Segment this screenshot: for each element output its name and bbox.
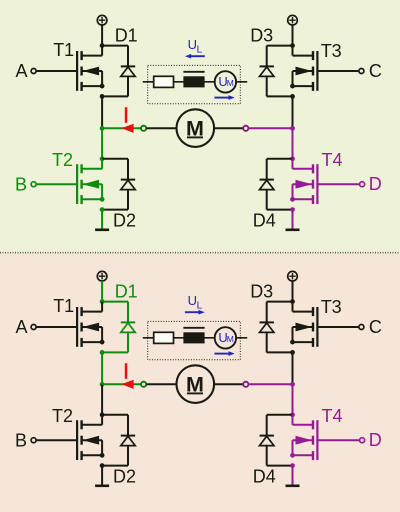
bottom panel background — [0, 253, 400, 512]
svg-text:D: D — [369, 430, 382, 450]
svg-text:T3: T3 — [321, 297, 342, 317]
svg-text:U: U — [188, 293, 197, 308]
svg-text:D3: D3 — [250, 25, 273, 45]
ground (left, bottom panel) — [95, 484, 109, 487]
wire: equivalent circuit (bottom panel) — [143, 337, 247, 339]
svg-text:L: L — [197, 45, 203, 56]
svg-text:T2: T2 — [52, 406, 73, 426]
arrow U_L direction (top panel) — [185, 54, 205, 59]
terminal A ring (top panel) — [31, 69, 36, 74]
node: T4 drain junction (top panel) — [290, 156, 295, 161]
transistor T3 (top panel) (n-MOSFET) — [293, 46, 318, 91]
svg-text:D4: D4 — [253, 211, 276, 231]
svg-text:A: A — [15, 317, 27, 337]
svg-text:D3: D3 — [250, 281, 273, 301]
wire: left supply rail (top panel) — [101, 25, 103, 46]
motor equivalent box (bottom panel) — [148, 321, 241, 359]
node: T4 source junction (top panel) — [290, 207, 295, 212]
transistor T4 (top panel) (n-MOSFET) — [293, 159, 318, 204]
node: T4 drain junction (bottom panel) — [290, 412, 295, 417]
wire: T3 gate to terminal C (top panel) — [317, 70, 359, 72]
terminal C ring (bottom panel) — [359, 325, 364, 330]
ground (left, top panel) — [95, 229, 109, 232]
wire: terminal B to T2 gate (bottom panel) — [36, 439, 77, 441]
transistor T4 (bottom panel) (n-MOSFET) — [293, 415, 318, 460]
junction dot: T3 (bottom panel) source/body tie — [290, 340, 295, 345]
svg-text:D: D — [369, 174, 382, 194]
supply +V symbol (right, bottom panel) — [288, 271, 298, 281]
node: T2 drain junction (bottom panel) — [100, 412, 105, 417]
junction dot: T3 (top panel) source/body tie — [290, 84, 295, 89]
node: left high-side junction (bottom panel) — [100, 299, 105, 304]
terminal C ring (top panel) — [359, 69, 364, 74]
diode D1 (top panel) (freewheel) — [102, 46, 135, 97]
panel divider (dotted) — [0, 252, 400, 254]
wire: terminal A to T1 gate (bottom panel) — [36, 326, 77, 328]
junction dot: T1 (top panel) source/body tie — [100, 84, 105, 89]
wire: motor node down to T4 drain node (top panel) — [292, 128, 294, 159]
diode D2 (bottom panel) (freewheel) — [102, 415, 135, 466]
svg-text:D2: D2 — [113, 467, 136, 487]
node: right high-side junction (bottom panel) — [290, 299, 295, 304]
arrow U_M direction (bottom panel) — [214, 351, 234, 356]
junction dot: T2 (bottom panel) source/body tie — [100, 453, 105, 458]
svg-text:M: M — [227, 334, 234, 344]
node: motor right node (bottom panel) — [290, 382, 295, 387]
transistor T2 (bottom panel) (n-MOSFET) — [77, 415, 102, 460]
svg-text:C: C — [369, 317, 382, 337]
svg-text:B: B — [15, 430, 27, 450]
node: T2 source junction (bottom panel) — [100, 463, 105, 468]
supply +V symbol (left, bottom panel) — [97, 271, 107, 281]
node: T4 source junction (bottom panel) — [290, 463, 295, 468]
diode D4 (bottom panel) (freewheel) — [260, 415, 293, 466]
svg-text:D2: D2 — [113, 211, 136, 231]
connector ring: motor left (bottom panel) — [141, 382, 146, 387]
transistor T2 (top panel) (n-MOSFET) — [77, 159, 102, 204]
transistor T3 (bottom panel) (n-MOSFET) — [293, 302, 318, 347]
current arrow I (bottom panel) — [121, 363, 133, 389]
wire: left rail D1 node to motor node (top panel) — [101, 96, 103, 128]
top panel background — [0, 0, 400, 253]
svg-text:T4: T4 — [321, 150, 342, 170]
wire: right rail D3 node to motor node (top panel) — [292, 96, 294, 128]
arrow U_L direction (bottom panel) — [185, 310, 205, 315]
node: T2 drain junction (top panel) — [100, 156, 105, 161]
svg-text:T4: T4 — [321, 406, 342, 426]
wire: T4 source to ground (bottom panel) — [292, 466, 294, 485]
current arrow I (top panel) — [121, 107, 133, 133]
terminal B ring (top panel) — [31, 182, 36, 187]
svg-text:L: L — [197, 301, 203, 312]
wire: right connector to motor node (bottom panel) — [248, 383, 292, 385]
connector ring: motor right (bottom panel) — [243, 382, 248, 387]
terminal D ring (bottom panel) — [360, 438, 365, 443]
wire: T3 gate to terminal C (bottom panel) — [317, 326, 359, 328]
wire: motor node to left connector (top panel) — [102, 127, 141, 129]
node: right low-side of D3 (bottom panel) — [290, 350, 295, 355]
diode D3 (top panel) (freewheel) — [260, 46, 293, 97]
wire: left supply rail (bottom panel) — [101, 281, 103, 302]
label U_M (bottom panel) — [218, 330, 233, 345]
diode D4 (top panel) (freewheel) — [260, 159, 293, 210]
svg-text:T2: T2 — [52, 150, 73, 170]
node: right low-side of D3 (top panel) — [290, 94, 295, 99]
motor M (bottom panel) — [177, 365, 215, 403]
supply +V symbol (left, top panel) — [97, 15, 107, 25]
wire: left connector to motor (top panel) — [146, 127, 176, 129]
wire: T2 source to ground (bottom panel) — [101, 466, 103, 485]
transistor T1 (top panel) (n-MOSFET) — [77, 46, 102, 91]
wire: right supply rail (bottom panel) — [292, 281, 294, 302]
transistor T1 (bottom panel) (n-MOSFET) — [77, 302, 102, 347]
arrow U_M direction (top panel) — [214, 95, 234, 100]
svg-text:T1: T1 — [53, 296, 74, 316]
wire: terminal A to T1 gate (top panel) — [36, 70, 77, 72]
wire: motor to right connector (top panel) — [214, 127, 243, 129]
node: motor left node (bottom panel) — [100, 382, 105, 387]
terminal B ring (bottom panel) — [31, 438, 36, 443]
diode D2 (top panel) (freewheel) — [102, 159, 135, 210]
inductor L (motor winding, bottom panel) — [183, 328, 204, 344]
svg-text:C: C — [369, 61, 382, 81]
motor M (top panel) — [177, 109, 215, 147]
wire: right connector to motor node (top panel) — [248, 127, 292, 129]
EMF source U_M circle (bottom panel) — [215, 327, 236, 348]
node: T2 source junction (top panel) — [100, 207, 105, 212]
diode D1 (bottom panel) (freewheel) — [102, 302, 135, 353]
node: left high-side junction (top panel) — [100, 43, 105, 48]
terminal A ring (bottom panel) — [31, 325, 36, 330]
label U_L (top panel) — [188, 37, 203, 56]
wire: terminal B to T2 gate (top panel) — [36, 183, 77, 185]
EMF source U_M circle (top panel) — [215, 71, 236, 92]
svg-text:D4: D4 — [253, 467, 276, 487]
wire: right supply rail (top panel) — [292, 25, 294, 46]
connector ring: motor left (top panel) — [141, 126, 146, 131]
wire: motor node down to T2 drain node (top panel) — [101, 128, 103, 159]
junction dot: T2 (top panel) source/body tie — [100, 197, 105, 202]
inductor L (motor winding, top panel) — [183, 72, 204, 88]
wire: T2 source to ground (top panel) — [101, 210, 103, 229]
node: left low-side of D1 (top panel) — [100, 94, 105, 99]
wire: right rail D3 node to motor node (bottom panel) — [292, 352, 294, 384]
svg-text:D1: D1 — [115, 281, 138, 301]
connector ring: motor right (top panel) — [243, 126, 248, 131]
wire: left connector to motor (bottom panel) — [146, 383, 176, 385]
resistor R (motor winding, top panel) — [154, 76, 174, 87]
wire: motor to right connector (bottom panel) — [214, 383, 243, 385]
junction dot: T4 (top panel) source/body tie — [290, 197, 295, 202]
supply +V symbol (right, top panel) — [288, 15, 298, 25]
terminal D ring (top panel) — [360, 182, 365, 187]
svg-text:A: A — [15, 61, 27, 81]
wire: left rail D1 node to motor node (bottom panel) — [101, 352, 103, 384]
diode D3 (bottom panel) (freewheel) — [260, 302, 293, 353]
ground (right, top panel) — [286, 229, 300, 232]
junction dot: T4 (bottom panel) source/body tie — [290, 453, 295, 458]
node: motor left node (top panel) — [100, 126, 105, 131]
label U_M (top panel) — [218, 74, 233, 89]
svg-text:M: M — [227, 78, 234, 88]
svg-text:U: U — [188, 37, 197, 52]
node: motor right node (top panel) — [290, 126, 295, 131]
svg-text:T1: T1 — [53, 40, 74, 60]
motor equivalent box (top panel) — [148, 65, 241, 103]
svg-text:T3: T3 — [321, 41, 342, 61]
wire: motor node to left connector (bottom panel) — [102, 383, 141, 385]
label U_L (bottom panel) — [188, 293, 203, 312]
wire: motor node down to T2 drain node (bottom panel) — [101, 384, 103, 415]
wire: T4 gate to terminal D (top panel) — [317, 183, 359, 185]
node: right high-side junction (top panel) — [290, 43, 295, 48]
svg-text:D1: D1 — [115, 25, 138, 45]
wire: T4 source to ground (top panel) — [292, 210, 294, 229]
wire: equivalent circuit (top panel) — [143, 81, 247, 83]
resistor R (motor winding, bottom panel) — [154, 332, 174, 343]
node: left low-side of D1 (bottom panel) — [100, 350, 105, 355]
wire: motor node down to T4 drain node (bottom panel) — [292, 384, 294, 415]
junction dot: T1 (bottom panel) source/body tie — [100, 340, 105, 345]
ground (right, bottom panel) — [286, 484, 300, 487]
svg-text:B: B — [15, 174, 27, 194]
wire: T4 gate to terminal D (bottom panel) — [317, 439, 359, 441]
